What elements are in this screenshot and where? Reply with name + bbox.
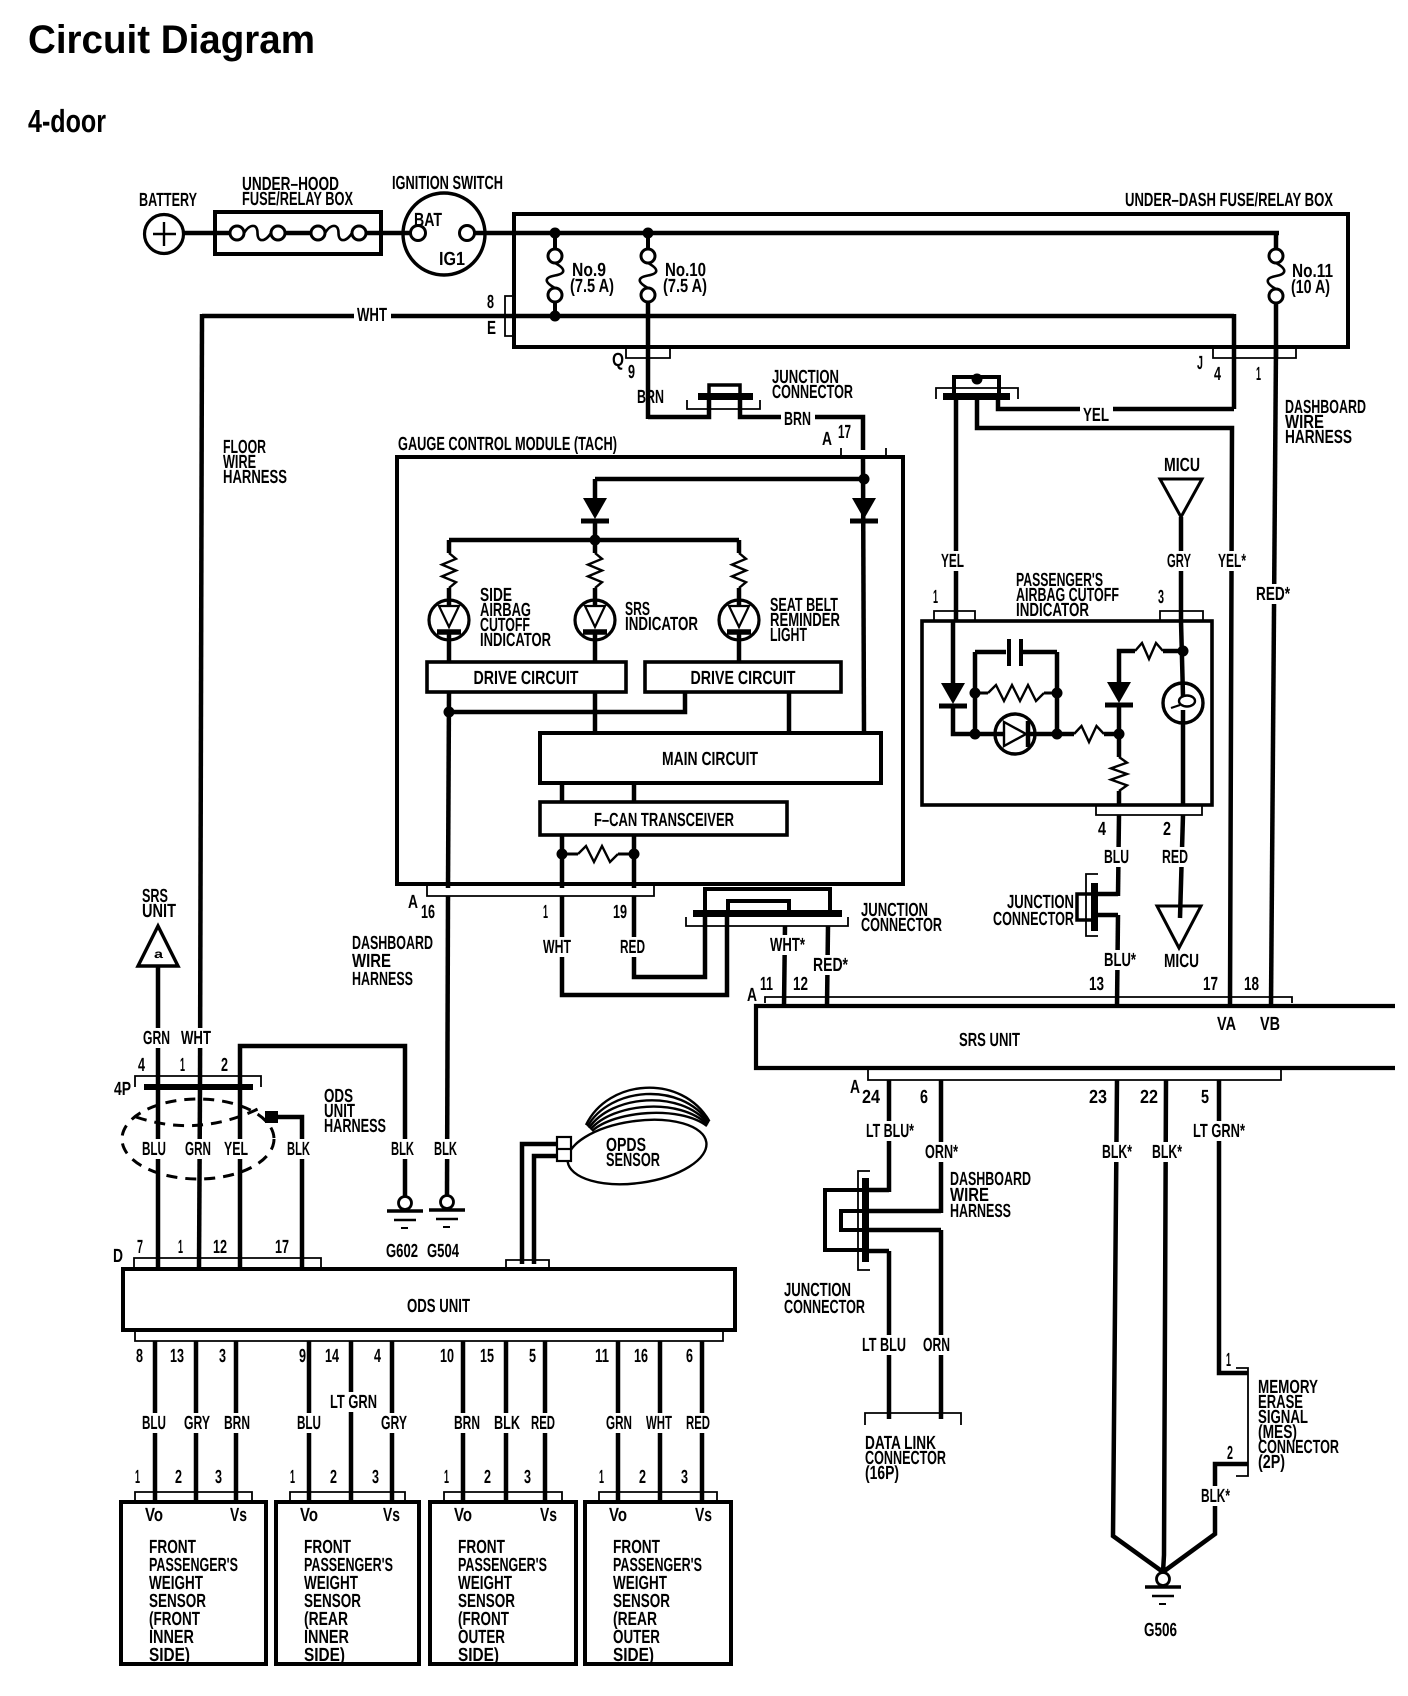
resistor (srs indicator)	[588, 553, 602, 588]
photodiode (indicator)	[995, 714, 1035, 754]
svg-text:7: 7	[137, 1237, 143, 1258]
svg-text:9: 9	[299, 1346, 306, 1367]
ground G504	[441, 1196, 454, 1209]
svg-text:22: 22	[1140, 1087, 1158, 1108]
svg-text:BLK*: BLK*	[1102, 1142, 1132, 1163]
svg-text:2: 2	[1163, 819, 1171, 840]
wire YEL junction to passenger indicator pin 1	[954, 400, 959, 621]
junction connector (BLU)	[1091, 883, 1098, 931]
svg-text:1: 1	[290, 1467, 295, 1488]
svg-text:LT GRN*: LT GRN*	[1193, 1121, 1245, 1142]
wire LED2 to drive circuit	[593, 640, 598, 662]
SRS unit triangle	[138, 926, 178, 966]
wire ODS pin 13 to weight sensor	[194, 1341, 199, 1502]
svg-text:BLK: BLK	[434, 1139, 457, 1160]
shield oval (dashed)	[122, 1099, 274, 1179]
svg-text:13: 13	[1089, 974, 1104, 995]
svg-text:11: 11	[760, 974, 773, 995]
resistor (bottom rail)	[1074, 726, 1104, 742]
svg-text:F–CAN TRANSCEIVER: F–CAN TRANSCEIVER	[594, 810, 734, 831]
wire WHT f-can to junction connector	[562, 896, 727, 995]
svg-text:1: 1	[444, 1467, 449, 1488]
svg-text:2: 2	[175, 1467, 182, 1488]
label LT GRN	[327, 1392, 381, 1412]
svg-text:1: 1	[1256, 364, 1261, 385]
svg-text:A: A	[822, 429, 832, 450]
svg-text:17: 17	[838, 422, 851, 443]
svg-text:WHT: WHT	[543, 937, 571, 958]
svg-text:18: 18	[1244, 974, 1259, 995]
svg-text:IGNITION SWITCH: IGNITION SWITCH	[392, 173, 503, 194]
wire GRN to ODS pin 1	[199, 1087, 200, 1269]
node term resistor right	[629, 849, 640, 860]
svg-text:24: 24	[862, 1087, 880, 1108]
svg-text:VA: VA	[1217, 1014, 1236, 1035]
svg-text:1: 1	[178, 1237, 183, 1258]
diode (left)	[583, 498, 607, 519]
wire ODS pin 3 to weight sensor	[234, 1341, 239, 1502]
svg-text:10: 10	[440, 1346, 454, 1367]
svg-text:HARNESS: HARNESS	[1285, 427, 1352, 448]
svg-text:G504: G504	[427, 1241, 459, 1262]
node diode2 junction	[1114, 729, 1125, 740]
ODS unit box	[123, 1269, 735, 1330]
svg-text:Circuit Diagram: Circuit Diagram	[28, 18, 315, 62]
label BLU	[139, 1413, 170, 1433]
svg-text:Q: Q	[612, 350, 624, 371]
svg-text:(2P): (2P)	[1258, 1452, 1285, 1473]
label BRN	[221, 1413, 254, 1433]
svg-text:Vo: Vo	[454, 1505, 472, 1526]
svg-text:BRN: BRN	[454, 1413, 480, 1434]
wire ODS pin 11 to weight sensor	[616, 1341, 621, 1502]
svg-text:Vs: Vs	[383, 1505, 400, 1526]
svg-text:4: 4	[1214, 364, 1221, 385]
wire main to f-can 1	[560, 783, 565, 802]
junction connector (YEL)	[943, 393, 1010, 400]
svg-text:2: 2	[639, 1467, 646, 1488]
svg-text:1: 1	[599, 1467, 604, 1488]
svg-text:a: a	[154, 947, 163, 961]
node indicator rail	[590, 535, 601, 546]
label WHT	[643, 1413, 676, 1433]
wire BLU 4P to ODS pin 7	[156, 1089, 161, 1269]
wire bottom rail	[975, 732, 1004, 737]
wire BRN junction connector to gauge A17	[740, 398, 863, 450]
svg-text:Vs: Vs	[695, 1505, 712, 1526]
wire bus2 corner to connector J4	[1232, 314, 1237, 409]
svg-text:E: E	[487, 318, 496, 339]
svg-text:HARNESS: HARNESS	[324, 1116, 386, 1137]
svg-text:Vo: Vo	[609, 1505, 627, 1526]
wire lamp to pin 2	[1181, 710, 1186, 805]
svg-text:BLK: BLK	[494, 1413, 520, 1434]
wire IG1 to under-dash box bus	[474, 231, 1279, 236]
wire OPDS to ODS 1	[522, 1144, 557, 1264]
connector J pins 4 and 1	[1213, 348, 1296, 358]
svg-text:HARNESS: HARNESS	[223, 467, 287, 488]
main circuit box	[540, 733, 881, 783]
connector weight sensor 2	[290, 1492, 405, 1502]
node bottom rail right	[1052, 729, 1063, 740]
wire resistor to LED2	[593, 588, 598, 600]
LED seat belt reminder light	[719, 600, 759, 640]
svg-text:GRN: GRN	[606, 1413, 632, 1434]
svg-text:ORN: ORN	[923, 1335, 950, 1356]
connector A17 (gauge module)	[841, 448, 886, 458]
svg-text:DRIVE CIRCUIT: DRIVE CIRCUIT	[474, 668, 579, 689]
svg-text:YEL*: YEL*	[1218, 551, 1246, 572]
svg-text:BATTERY: BATTERY	[139, 190, 197, 211]
svg-text:16: 16	[634, 1346, 648, 1367]
diode (indicator right)	[1107, 682, 1131, 703]
svg-text:D: D	[113, 1246, 123, 1267]
svg-text:3: 3	[681, 1467, 688, 1488]
connector E pin 8	[505, 296, 514, 336]
svg-text:WHT: WHT	[357, 305, 387, 326]
wire LED1 to drive circuit	[447, 640, 452, 662]
termination resistor	[562, 853, 578, 856]
svg-text:5: 5	[529, 1346, 536, 1367]
wire WHT floor harness to connector E8	[202, 314, 1234, 319]
connector weight sensor 4	[599, 1492, 717, 1502]
diode (right, A17)	[852, 498, 876, 519]
svg-text:(7.5 A): (7.5 A)	[663, 276, 707, 297]
svg-text:ORN*: ORN*	[925, 1142, 958, 1163]
ground G602	[399, 1197, 412, 1210]
svg-text:3: 3	[372, 1467, 379, 1488]
MICU triangle (bottom)	[1157, 906, 1201, 948]
svg-text:12: 12	[793, 974, 808, 995]
svg-text:8: 8	[136, 1346, 143, 1367]
node bus1/fuse9	[550, 228, 561, 239]
wire YEL* junction to SRS pin 17	[977, 400, 1232, 1006]
svg-text:3: 3	[219, 1346, 226, 1367]
wire f-can pin 1 WHT	[560, 835, 565, 888]
wire RED f-can to junction connector	[634, 896, 705, 977]
svg-text:Vo: Vo	[145, 1505, 163, 1526]
resistor (seat belt light)	[732, 553, 746, 588]
svg-text:LIGHT: LIGHT	[770, 625, 807, 646]
capacitor top wire	[975, 650, 1006, 655]
fuse (under-hood left)	[230, 226, 244, 240]
svg-text:G506: G506	[1144, 1620, 1177, 1641]
svg-text:RED: RED	[620, 937, 645, 958]
svg-text:Vs: Vs	[540, 1505, 557, 1526]
svg-text:INDICATOR: INDICATOR	[480, 630, 551, 651]
node fuse9/bus2	[550, 311, 561, 322]
connector SRS A bottom	[868, 1068, 1281, 1080]
wire ODS pin 14 to weight sensor	[349, 1341, 354, 1502]
SRS unit box	[756, 1006, 1395, 1068]
wire BRN fuse10 to junction connector	[646, 302, 651, 419]
fuse No.9	[553, 233, 557, 249]
wire BLK* pin23 to ground	[1113, 1080, 1163, 1572]
battery	[145, 215, 184, 254]
wire BLU* junction to SRS pin 13	[1117, 915, 1118, 1006]
connector indicator pin 1	[934, 611, 975, 621]
wire ORN* pin6 to junction connector	[939, 1080, 944, 1213]
svg-text:GRY: GRY	[381, 1413, 407, 1434]
svg-text:4-door: 4-door	[28, 103, 106, 139]
svg-text:15: 15	[480, 1346, 494, 1367]
svg-text:VB: VB	[1260, 1014, 1280, 1035]
connector indicator pin 3	[1160, 611, 1203, 621]
svg-text:ODS UNIT: ODS UNIT	[407, 1296, 470, 1317]
wire RED pin2 to MICU	[1180, 815, 1183, 918]
node lamp rail	[1178, 646, 1189, 657]
fuse No.10	[646, 233, 650, 249]
svg-text:2: 2	[1227, 1443, 1233, 1464]
svg-text:INDICATOR: INDICATOR	[625, 614, 698, 635]
svg-text:(7.5 A): (7.5 A)	[570, 276, 614, 297]
svg-text:4P: 4P	[114, 1079, 131, 1100]
label RED	[528, 1413, 559, 1433]
wire resistor to LED1	[447, 588, 452, 600]
svg-text:WHT: WHT	[181, 1028, 211, 1049]
svg-text:13: 13	[170, 1346, 184, 1367]
svg-text:GRY: GRY	[184, 1413, 210, 1434]
wire floor harness WHT down left side	[200, 314, 202, 1087]
svg-text:2: 2	[330, 1467, 337, 1488]
label RED	[683, 1413, 714, 1433]
svg-text:BRN: BRN	[224, 1413, 250, 1434]
capacitor loop left wire	[973, 652, 978, 734]
svg-text:BLK*: BLK*	[1152, 1142, 1182, 1163]
svg-text:YEL: YEL	[941, 551, 964, 572]
svg-text:BLU: BLU	[1104, 847, 1129, 868]
svg-text:INDICATOR: INDICATOR	[1016, 600, 1089, 621]
label GRN	[603, 1413, 636, 1433]
svg-text:CONNECTOR: CONNECTOR	[861, 915, 942, 936]
node drive circuit outputs	[444, 707, 455, 718]
svg-text:2: 2	[484, 1467, 491, 1488]
drive circuit box (left)	[427, 662, 626, 692]
svg-text:CONNECTOR: CONNECTOR	[784, 1297, 865, 1318]
wire resistor to LED3	[737, 588, 742, 600]
wire battery to under-hood box	[183, 231, 222, 236]
passenger's airbag cutoff indicator box	[922, 621, 1212, 805]
label GRY	[181, 1413, 214, 1433]
node res left	[970, 688, 981, 699]
svg-text:BLU: BLU	[142, 1139, 166, 1160]
node junction connector YEL	[972, 374, 983, 385]
connector indicator pins 4 2	[1096, 805, 1202, 815]
svg-text:BLU: BLU	[297, 1413, 321, 1434]
connector memory erase signal (MES)	[1236, 1368, 1248, 1476]
svg-text:MAIN CIRCUIT: MAIN CIRCUIT	[662, 749, 758, 770]
ignition switch	[403, 193, 485, 275]
connector A (gauge module) pins 16 1 19	[427, 885, 654, 896]
svg-text:9: 9	[628, 362, 635, 383]
connector SRS A top pins	[765, 997, 1292, 1003]
wire diode2 top rail	[1119, 651, 1135, 682]
svg-text:4: 4	[138, 1055, 145, 1076]
svg-text:16: 16	[421, 902, 435, 923]
node A17 branch	[859, 474, 870, 485]
capacitor	[1007, 639, 1011, 666]
wire ODS pin 16 to weight sensor	[658, 1341, 663, 1502]
wire ODS pin 10 to weight sensor	[461, 1341, 466, 1502]
svg-text:(10 A): (10 A)	[1291, 277, 1330, 298]
wire ODS pin 5 to weight sensor	[543, 1341, 548, 1502]
svg-text:GRN: GRN	[185, 1139, 211, 1160]
svg-text:HARNESS: HARNESS	[352, 969, 413, 990]
wire RED* connector J1 to SRS pin 18	[1271, 347, 1276, 1006]
connector weight sensor 1	[135, 1492, 252, 1502]
svg-text:BLU*: BLU*	[1104, 950, 1136, 971]
svg-text:11: 11	[595, 1346, 609, 1367]
wire drive circuit 2 to main circuit	[787, 692, 792, 733]
LED SRS indicator	[575, 600, 615, 640]
OPDS sensor	[563, 1088, 710, 1193]
diode (indicator left)	[941, 683, 965, 704]
svg-text:GAUGE CONTROL MODULE (TACH): GAUGE CONTROL MODULE (TACH)	[398, 434, 617, 455]
connector D pins 7 1 12 17	[134, 1258, 321, 1269]
svg-text:(16P): (16P)	[865, 1463, 899, 1484]
svg-text:A: A	[408, 892, 418, 913]
junction connector (BRN)	[698, 393, 753, 400]
svg-text:BLK*: BLK*	[1201, 1486, 1230, 1507]
capacitor loop right wire	[1055, 652, 1060, 734]
svg-text:CONNECTOR: CONNECTOR	[993, 909, 1074, 930]
node res right	[1052, 688, 1063, 699]
svg-text:17: 17	[275, 1237, 289, 1258]
svg-text:2: 2	[221, 1055, 228, 1076]
svg-text:BRN: BRN	[784, 409, 811, 430]
connector weight sensor 3	[444, 1492, 562, 1502]
wire RED* junction to SRS A12	[827, 926, 828, 1006]
svg-text:A: A	[850, 1077, 860, 1098]
svg-text:RED*: RED*	[813, 955, 848, 976]
svg-text:A: A	[747, 985, 757, 1006]
svg-text:3: 3	[524, 1467, 531, 1488]
svg-text:17: 17	[1203, 974, 1218, 995]
svg-text:4: 4	[1098, 819, 1106, 840]
svg-text:1: 1	[1226, 1350, 1231, 1371]
ground G506	[1157, 1573, 1170, 1586]
wire resistor down to pin 4	[1117, 734, 1122, 757]
label GRY	[378, 1413, 411, 1433]
svg-text:5: 5	[1201, 1087, 1209, 1108]
connector data link (16P)	[865, 1413, 961, 1425]
svg-text:G602: G602	[386, 1241, 418, 1262]
svg-text:MICU: MICU	[1164, 455, 1200, 476]
under-hood fuse/relay box	[215, 212, 381, 254]
wire A17 into module	[863, 458, 864, 733]
svg-text:WHT: WHT	[646, 1413, 672, 1434]
svg-text:LT BLU*: LT BLU*	[866, 1121, 914, 1142]
svg-text:FUSE/RELAY BOX: FUSE/RELAY BOX	[242, 189, 353, 210]
front passenger's weight sensor box 4	[585, 1502, 731, 1664]
wire indicator rail	[449, 538, 739, 543]
svg-text:3: 3	[215, 1467, 222, 1488]
wire LT BLU junction to data link connector	[887, 1251, 892, 1419]
node shield drain	[265, 1111, 278, 1123]
wire diode to bottom rail	[953, 708, 975, 734]
svg-text:1: 1	[135, 1467, 140, 1488]
wire BLK* MES pin2 to ground	[1163, 1464, 1248, 1572]
resistor (top right)	[1135, 643, 1163, 659]
fuse No.11	[1274, 233, 1279, 249]
junction connector (LT BLU/ORN)	[862, 1178, 869, 1262]
lamp (indicator)	[1163, 683, 1203, 723]
svg-text:CONNECTOR: CONNECTOR	[772, 382, 853, 403]
svg-text:6: 6	[920, 1087, 928, 1108]
wire ODS pin 15 to weight sensor	[504, 1341, 509, 1502]
svg-text:LT BLU: LT BLU	[862, 1335, 906, 1356]
LED side airbag cutoff indicator	[429, 600, 469, 640]
wire ODS pin 8 to weight sensor	[153, 1341, 158, 1502]
svg-text:SENSOR: SENSOR	[606, 1150, 660, 1171]
wire BLK shield to ODS pin 17	[277, 1117, 302, 1269]
svg-text:IG1: IG1	[439, 249, 465, 270]
wire LED3 to drive circuit 2	[737, 640, 742, 662]
wire YEL connector J4 to junction connector	[998, 398, 1234, 409]
svg-text:BLK: BLK	[287, 1139, 310, 1160]
svg-text:RED: RED	[686, 1413, 710, 1434]
front passenger's weight sensor box 1	[121, 1502, 266, 1664]
svg-text:1: 1	[933, 587, 938, 608]
svg-text:RED*: RED*	[1256, 584, 1290, 605]
label BLK G504	[431, 1139, 461, 1159]
svg-text:MICU: MICU	[1164, 951, 1199, 972]
svg-text:1: 1	[543, 902, 548, 923]
wire LT GRN* pin5 to MES connector	[1219, 1080, 1248, 1373]
wire LT BLU* pin24 to junction connector	[887, 1080, 892, 1192]
connector OPDS-ODS	[506, 1260, 549, 1269]
svg-text:WHT*: WHT*	[770, 935, 805, 956]
svg-text:1: 1	[180, 1055, 185, 1076]
label BLK	[491, 1413, 524, 1433]
svg-text:BLK: BLK	[391, 1139, 414, 1160]
under-dash fuse/relay box	[514, 214, 1348, 347]
svg-text:BLU: BLU	[142, 1413, 166, 1434]
wire GRN triangle to 4P pin 4	[156, 966, 161, 1087]
node term resistor left	[557, 849, 568, 860]
node bus1/fuse10	[643, 228, 654, 239]
wire branch to diode	[595, 477, 864, 482]
f-can transceiver box	[540, 802, 787, 835]
svg-text:Vo: Vo	[300, 1505, 318, 1526]
svg-text:12: 12	[213, 1237, 227, 1258]
svg-text:GRN: GRN	[143, 1028, 170, 1049]
wire ODS pin 9 to weight sensor	[307, 1341, 312, 1502]
svg-text:SIDE): SIDE)	[458, 1645, 499, 1666]
svg-text:8: 8	[487, 292, 494, 313]
resistor (to pin 4)	[1111, 757, 1127, 791]
svg-text:RED: RED	[531, 1413, 555, 1434]
connector Q pin 9	[626, 347, 670, 358]
svg-text:SIDE): SIDE)	[613, 1645, 654, 1666]
OPDS connector stub	[557, 1137, 571, 1161]
resistor (side airbag indicator)	[442, 553, 456, 588]
wire pin2 to BLK G602 route	[240, 1046, 405, 1196]
wire YEL to ODS pin 12	[238, 1089, 243, 1269]
svg-text:J: J	[1197, 353, 1203, 374]
wire LED1 branch through to A16	[448, 692, 449, 888]
svg-text:SRS UNIT: SRS UNIT	[959, 1030, 1020, 1051]
wire SRS branch to main circuit	[593, 692, 598, 733]
svg-text:14: 14	[325, 1346, 339, 1367]
front passenger's weight sensor box 3	[430, 1502, 576, 1664]
label BRN	[451, 1413, 484, 1433]
svg-text:BRN: BRN	[637, 387, 664, 408]
node bottom rail left	[970, 729, 981, 740]
svg-text:4: 4	[374, 1346, 381, 1367]
drive circuit box (right)	[645, 662, 841, 692]
wire pin1 to diode	[951, 621, 956, 683]
